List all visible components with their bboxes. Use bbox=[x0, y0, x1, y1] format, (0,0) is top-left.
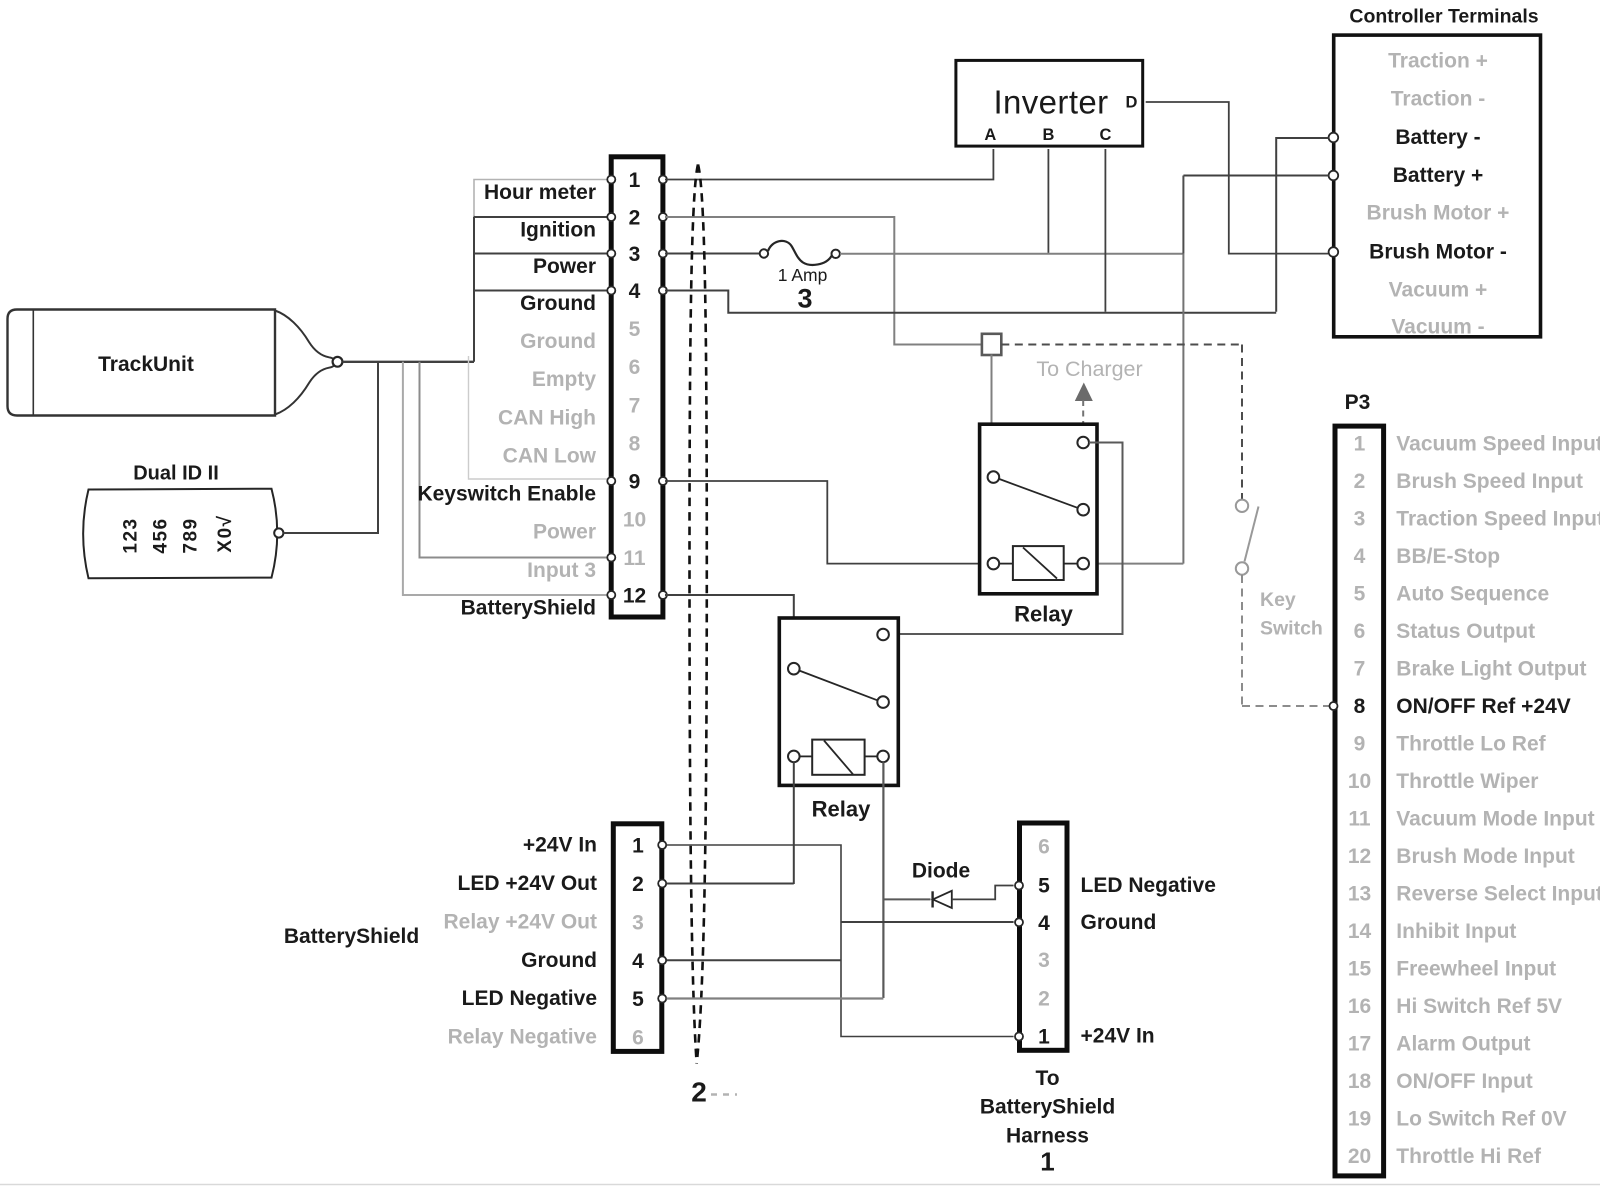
gray label box pin1 (Hour meter) bbox=[474, 180, 607, 218]
wire relay1 coil right to riser bbox=[1089, 563, 1183, 565]
J1 pin circles left bbox=[607, 176, 615, 600]
svg-text:5: 5 bbox=[1354, 583, 1366, 606]
wire pin12 to relay2 common bbox=[665, 595, 794, 663]
svg-text:Inverter: Inverter bbox=[993, 84, 1108, 121]
harness pin circles left bbox=[1015, 882, 1023, 1041]
svg-text:5: 5 bbox=[1038, 875, 1050, 898]
svg-text:20: 20 bbox=[1348, 1145, 1371, 1168]
wire riser to harness pin4 (Ground) bbox=[841, 921, 1014, 923]
svg-text:Inhibit Input: Inhibit Input bbox=[1396, 920, 1516, 943]
svg-text:Relay: Relay bbox=[1014, 602, 1073, 627]
svg-text:Status Output: Status Output bbox=[1396, 620, 1535, 643]
svg-text:To Charger: To Charger bbox=[1036, 357, 1142, 381]
svg-text:1: 1 bbox=[1038, 1025, 1050, 1048]
svg-text:4: 4 bbox=[629, 280, 641, 303]
svg-text:456: 456 bbox=[151, 517, 172, 553]
svg-text:Ground: Ground bbox=[1081, 911, 1157, 934]
svg-text:Harness: Harness bbox=[1006, 1124, 1089, 1147]
svg-text:5: 5 bbox=[632, 988, 644, 1011]
wire fuse to Battery+ riser bbox=[840, 253, 1183, 255]
connector J1 labels bbox=[417, 181, 596, 620]
wire to pin 12 (BatteryShield, light gray) bbox=[403, 362, 608, 595]
svg-text:6: 6 bbox=[629, 356, 641, 379]
svg-text:2: 2 bbox=[629, 207, 641, 230]
Inverter U1 bbox=[956, 60, 1143, 146]
wire junction bus up to pins 2-4 bbox=[473, 216, 475, 362]
svg-text:Ground: Ground bbox=[520, 292, 596, 315]
svg-text:4: 4 bbox=[632, 950, 644, 973]
svg-text:+24V In: +24V In bbox=[1081, 1025, 1155, 1048]
svg-text:Vacuum Speed Input: Vacuum Speed Input bbox=[1396, 433, 1600, 456]
svg-text:Lo Switch Ref 0V: Lo Switch Ref 0V bbox=[1396, 1108, 1566, 1131]
wire pin 3 left (Power) bbox=[474, 253, 608, 255]
svg-text:Brush Speed Input: Brush Speed Input bbox=[1396, 470, 1583, 493]
gray label box pins 5-8 and pin 9 top edge bbox=[469, 356, 609, 479]
svg-text:C: C bbox=[1099, 126, 1111, 144]
svg-text:1: 1 bbox=[1040, 1147, 1054, 1177]
svg-text:2: 2 bbox=[1354, 470, 1366, 493]
svg-text:18: 18 bbox=[1348, 1070, 1372, 1093]
svg-text:Vacuum Mode Input: Vacuum Mode Input bbox=[1396, 808, 1594, 831]
svg-text:B: B bbox=[1042, 126, 1054, 144]
wire Dual ID II to bus bbox=[283, 362, 378, 533]
key switch (dashed, gray) bbox=[1236, 500, 1329, 706]
wire square down to relay1 common bbox=[991, 355, 993, 472]
BatteryShield connector bbox=[613, 824, 662, 1052]
svg-text:Battery +: Battery + bbox=[1393, 164, 1483, 187]
svg-text:Empty: Empty bbox=[532, 368, 597, 391]
svg-text:17: 17 bbox=[1348, 1033, 1371, 1056]
svg-text:Throttle Hi Ref: Throttle Hi Ref bbox=[1396, 1145, 1542, 1168]
svg-text:16: 16 bbox=[1348, 995, 1371, 1018]
svg-text:Brush Motor -: Brush Motor - bbox=[1369, 241, 1507, 264]
svg-text:BatteryShield: BatteryShield bbox=[284, 925, 419, 948]
diode D1 bbox=[912, 860, 970, 909]
svg-text:Switch: Switch bbox=[1260, 618, 1323, 640]
wire Inverter B down to pin3 net bbox=[1047, 149, 1049, 253]
svg-text:789: 789 bbox=[181, 517, 202, 553]
Dual ID II keypad bbox=[83, 463, 283, 579]
svg-text:Alarm Output: Alarm Output bbox=[1396, 1033, 1530, 1056]
svg-text:2: 2 bbox=[691, 1077, 707, 1108]
relay K1 box bbox=[980, 424, 1097, 626]
svg-text:6: 6 bbox=[1038, 836, 1050, 859]
svg-text:8: 8 bbox=[1354, 695, 1366, 718]
svg-text:Auto Sequence: Auto Sequence bbox=[1396, 583, 1549, 606]
wire TrackUnit to harness junction bbox=[342, 361, 474, 363]
svg-text:ON/OFF Input: ON/OFF Input bbox=[1396, 1070, 1532, 1093]
svg-text:Ground: Ground bbox=[520, 330, 596, 353]
svg-text:13: 13 bbox=[1348, 883, 1371, 906]
wire Inverter D to Brush Motor - bbox=[1146, 102, 1328, 254]
wire relay2 coil left down to BS pin2 bbox=[793, 762, 795, 884]
wire to pin 11 (Input 3, gray) bbox=[420, 362, 609, 558]
wire BS pin5 (LED negative) bbox=[667, 997, 884, 999]
svg-text:Battery -: Battery - bbox=[1395, 126, 1480, 149]
svg-text:X0√: X0√ bbox=[215, 514, 236, 552]
svg-text:Traction -: Traction - bbox=[1391, 88, 1486, 111]
wire relay2 coil right down to BS pin5 bbox=[882, 762, 884, 998]
svg-text:Power: Power bbox=[533, 255, 596, 278]
svg-text:LED Negative: LED Negative bbox=[462, 987, 597, 1010]
svg-text:CAN Low: CAN Low bbox=[503, 445, 597, 468]
svg-text:8: 8 bbox=[629, 433, 641, 456]
svg-text:1 Amp: 1 Amp bbox=[778, 265, 828, 285]
svg-text:Throttle Wiper: Throttle Wiper bbox=[1396, 770, 1538, 793]
svg-text:Relay Negative: Relay Negative bbox=[448, 1025, 597, 1048]
svg-text:LED Negative: LED Negative bbox=[1081, 874, 1216, 897]
svg-text:3: 3 bbox=[1354, 508, 1366, 531]
wire pin 4 left (Ground) bbox=[474, 290, 608, 292]
BS pin circles right bbox=[658, 841, 666, 1003]
svg-text:To: To bbox=[1035, 1067, 1059, 1090]
controller terminal circles bbox=[1329, 133, 1339, 257]
fuse F1 1 Amp bbox=[760, 241, 840, 314]
junction square (charger tap) bbox=[982, 334, 1001, 355]
wire Battery- to pin4 net bbox=[1276, 138, 1328, 312]
svg-text:Key: Key bbox=[1260, 589, 1296, 611]
bottom page separator bbox=[0, 1184, 1600, 1186]
svg-text:Relay +24V Out: Relay +24V Out bbox=[444, 911, 598, 934]
svg-text:1: 1 bbox=[629, 169, 641, 192]
svg-text:BatteryShield: BatteryShield bbox=[461, 597, 596, 620]
svg-text:Brake Light Output: Brake Light Output bbox=[1396, 658, 1586, 681]
svg-text:+24V In: +24V In bbox=[523, 834, 597, 857]
svg-text:6: 6 bbox=[1354, 620, 1366, 643]
svg-text:LED +24V Out: LED +24V Out bbox=[458, 872, 597, 895]
svg-text:Input 3: Input 3 bbox=[527, 559, 596, 582]
svg-text:Hi Switch Ref 5V: Hi Switch Ref 5V bbox=[1396, 995, 1562, 1018]
wire relay1 NO to relay2 NO bbox=[889, 443, 1123, 635]
wire diode to harness pin5 bbox=[952, 886, 1014, 900]
svg-text:CAN High: CAN High bbox=[498, 407, 596, 430]
svg-text:7: 7 bbox=[629, 395, 641, 418]
J1 pin circles right bbox=[659, 176, 667, 600]
svg-text:Freewheel Input: Freewheel Input bbox=[1396, 958, 1556, 981]
svg-text:14: 14 bbox=[1348, 920, 1372, 943]
svg-text:Dual ID II: Dual ID II bbox=[133, 463, 219, 485]
TrackUnit box bbox=[8, 310, 276, 416]
Controller Terminals box bbox=[1334, 6, 1541, 339]
P3 pin labels bbox=[1396, 433, 1600, 1169]
svg-text:Power: Power bbox=[533, 521, 596, 544]
svg-text:4: 4 bbox=[1354, 545, 1366, 568]
svg-text:3: 3 bbox=[797, 284, 812, 314]
svg-text:7: 7 bbox=[1354, 658, 1366, 681]
svg-text:Vacuum +: Vacuum + bbox=[1389, 279, 1488, 302]
svg-text:Brush Motor +: Brush Motor + bbox=[1367, 202, 1510, 225]
wire pin3 to fuse bbox=[665, 253, 760, 255]
svg-text:9: 9 bbox=[629, 471, 641, 494]
svg-text:2: 2 bbox=[632, 873, 644, 896]
svg-text:Throttle Lo Ref: Throttle Lo Ref bbox=[1396, 733, 1546, 756]
svg-text:Traction +: Traction + bbox=[1388, 50, 1488, 73]
svg-text:11: 11 bbox=[1348, 808, 1371, 831]
wire BS pin4 to riser bbox=[667, 959, 841, 961]
wire pin2 to junction square bbox=[665, 217, 981, 345]
svg-text:Keyswitch Enable: Keyswitch Enable bbox=[417, 483, 596, 506]
harness labels bbox=[980, 874, 1216, 1177]
connector J1 (12-pin) bbox=[611, 157, 663, 617]
svg-text:4: 4 bbox=[1038, 912, 1050, 935]
To BatteryShield Harness connector bbox=[1020, 823, 1068, 1050]
svg-text:10: 10 bbox=[623, 509, 646, 532]
svg-text:12: 12 bbox=[1348, 845, 1371, 868]
P3 connector bbox=[1335, 391, 1384, 1176]
relay K2 box bbox=[779, 618, 898, 822]
wire branch to diode bbox=[885, 898, 931, 900]
riser Battery+ down to relay1 coil right bbox=[1182, 176, 1184, 254]
svg-text:Brush Mode Input: Brush Mode Input bbox=[1396, 845, 1574, 868]
svg-text:3: 3 bbox=[632, 912, 644, 935]
svg-text:TrackUnit: TrackUnit bbox=[98, 353, 194, 376]
svg-text:11: 11 bbox=[623, 547, 646, 570]
svg-text:3: 3 bbox=[1038, 949, 1050, 972]
svg-text:P3: P3 bbox=[1345, 391, 1371, 414]
svg-text:Diode: Diode bbox=[912, 860, 970, 883]
svg-text:ON/OFF Ref +24V: ON/OFF Ref +24V bbox=[1396, 695, 1570, 718]
wire pin9 to relay1 coil bbox=[665, 481, 988, 564]
svg-text:15: 15 bbox=[1348, 958, 1372, 981]
dashed wire square to key switch bbox=[1001, 345, 1242, 500]
svg-text:1: 1 bbox=[1354, 433, 1366, 456]
svg-text:Hour meter: Hour meter bbox=[484, 181, 596, 204]
wire Inverter C down to pin4 net bbox=[1104, 149, 1106, 312]
svg-text:9: 9 bbox=[1354, 733, 1366, 756]
svg-text:123: 123 bbox=[121, 517, 142, 553]
svg-text:10: 10 bbox=[1348, 770, 1371, 793]
svg-text:6: 6 bbox=[632, 1026, 644, 1049]
svg-text:3: 3 bbox=[629, 243, 641, 266]
svg-text:A: A bbox=[984, 126, 996, 144]
svg-text:Relay: Relay bbox=[812, 797, 871, 822]
wire BS pin1 to harness pin1 bbox=[667, 845, 1014, 1037]
svg-text:Ground: Ground bbox=[521, 949, 597, 972]
svg-text:Controller Terminals: Controller Terminals bbox=[1349, 6, 1538, 28]
svg-text:2: 2 bbox=[1038, 987, 1050, 1010]
svg-text:BatteryShield: BatteryShield bbox=[980, 1096, 1115, 1119]
wire pin 2 left (Ignition) bbox=[474, 216, 608, 218]
BatteryShield connector labels bbox=[284, 834, 597, 1049]
wire Battery+ horizontal bbox=[1183, 175, 1328, 177]
wire BS pin2 to relay2 coil bbox=[667, 883, 794, 885]
svg-text:5: 5 bbox=[629, 318, 641, 341]
svg-text:Vacuum -: Vacuum - bbox=[1391, 316, 1484, 339]
P3 pin8 circle bbox=[1330, 702, 1338, 710]
svg-text:BB/E-Stop: BB/E-Stop bbox=[1396, 545, 1500, 568]
svg-text:Traction Speed Input: Traction Speed Input bbox=[1396, 508, 1600, 531]
svg-text:1: 1 bbox=[632, 835, 644, 858]
svg-text:D: D bbox=[1126, 94, 1138, 112]
svg-text:12: 12 bbox=[623, 585, 646, 608]
wire pin1 to Inverter A bbox=[665, 149, 993, 180]
TrackUnit cable strain-relief funnel bbox=[275, 311, 342, 415]
wire pin4 to Battery- riser bbox=[665, 291, 1276, 313]
To Charger arrow bbox=[1036, 357, 1142, 437]
P3 pin numbers bbox=[1348, 433, 1372, 1169]
cable shield ellipse (dashed) bbox=[690, 165, 707, 1064]
svg-text:Ignition: Ignition bbox=[520, 219, 596, 242]
svg-text:Reverse Select Input: Reverse Select Input bbox=[1396, 883, 1600, 906]
svg-text:19: 19 bbox=[1348, 1108, 1371, 1131]
